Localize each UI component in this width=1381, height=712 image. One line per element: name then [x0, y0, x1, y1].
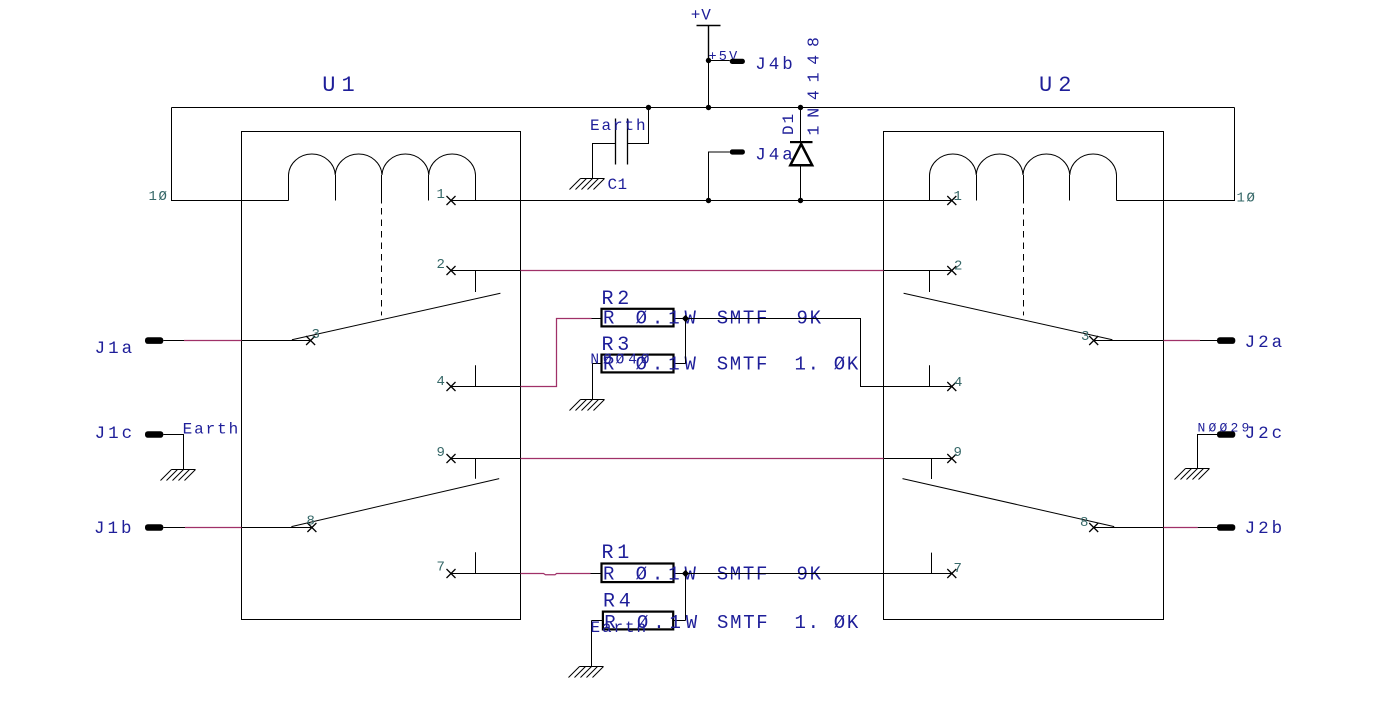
- svg-text:R1: R1: [602, 542, 634, 565]
- wire R3 left to ground: [592, 364, 594, 400]
- U1 coil: [289, 154, 476, 200]
- svg-text:7: 7: [954, 561, 964, 577]
- diode D1 1N4148: [798, 105, 803, 110]
- ground J1c: [161, 470, 196, 481]
- svg-text:8: 8: [306, 514, 316, 530]
- wire R3 right to junction: [685, 319, 687, 364]
- svg-text:J4b: J4b: [755, 55, 796, 75]
- svg-text:C1: C1: [608, 176, 628, 194]
- U2 body box: [884, 132, 1164, 620]
- wire J1c to ground: [163, 435, 183, 470]
- svg-text:NØØ29: NØØ29: [1198, 420, 1253, 435]
- node junction top wire at +V: [706, 105, 711, 110]
- capacitor C1: [646, 105, 651, 110]
- wire U2 pin3 to J2a: [1164, 340, 1200, 342]
- U2 pin 1: [947, 196, 956, 205]
- U2 pin 2: [884, 270, 952, 272]
- U2 pin 7: [884, 573, 952, 575]
- wire left outer loop to U1 pin 10: [172, 108, 289, 201]
- U2 switch stub pin9: [931, 459, 933, 480]
- connector J1b: [145, 524, 163, 531]
- wire J4a drop: [709, 152, 730, 201]
- wire J1a to U1 pin3: [163, 340, 184, 342]
- svg-text:9K: 9K: [797, 564, 823, 586]
- svg-text:J1c: J1c: [95, 424, 136, 444]
- U1 switch blade bottom: [291, 479, 499, 527]
- node R2/R3 junction diamond: [682, 315, 689, 322]
- svg-text:Earth: Earth: [183, 421, 241, 439]
- svg-text:2: 2: [436, 257, 446, 273]
- U1 pin 9: [451, 458, 521, 460]
- wire U1 pin7 to R1 magenta with jog: [521, 574, 591, 575]
- U2 pin 9: [884, 458, 952, 460]
- U1 pin 8: [242, 527, 312, 529]
- U2 switch blade bottom: [903, 479, 1115, 527]
- U2 dashed link: [1023, 208, 1025, 315]
- connector J2c: [1217, 431, 1235, 438]
- svg-text:SMTF: SMTF: [717, 354, 769, 376]
- connector J2a: [1217, 337, 1235, 344]
- wire J2c to ground: [1198, 435, 1218, 469]
- svg-text:9: 9: [436, 445, 446, 461]
- wire right outer loop to U2 pin 10: [1117, 108, 1235, 201]
- wire R4 right to junction: [685, 574, 687, 621]
- svg-text:9: 9: [954, 445, 964, 461]
- svg-text:J2b: J2b: [1245, 519, 1286, 539]
- svg-text:2: 2: [954, 259, 964, 275]
- U1 pin 1: [447, 196, 456, 205]
- wire J1b to U1 pin8: [163, 527, 185, 529]
- power +V: [697, 26, 721, 61]
- U2 switch stub pin2: [929, 271, 931, 293]
- U1 dashed link: [381, 208, 383, 315]
- connector J1c: [145, 431, 163, 438]
- U2 switch blade top: [904, 293, 1113, 340]
- U1 switch blade top: [292, 293, 501, 340]
- svg-text:3: 3: [1081, 329, 1091, 345]
- wire U2 pin8 to J2b: [1164, 527, 1198, 529]
- ground R3: [570, 400, 605, 411]
- U1 pin 4: [451, 386, 521, 388]
- svg-text:U1: U1: [322, 73, 360, 98]
- connector J1a: [145, 337, 163, 344]
- U2 pin 4: [884, 386, 952, 388]
- wire top horizontal bus: [172, 107, 1235, 109]
- wire U1 pin4 to R2 magenta: [521, 319, 592, 387]
- node R1/R4 junction diamond: [682, 570, 689, 577]
- svg-text:4: 4: [954, 375, 964, 391]
- connector J4b: [730, 59, 745, 64]
- U1 switch stub pin4: [475, 365, 477, 386]
- U1 switch stub pin7: [475, 552, 477, 573]
- U2 pin 3: [1094, 340, 1164, 342]
- connector J2b: [1217, 524, 1235, 531]
- connector J4a: [730, 149, 745, 154]
- wire R2 out to U2 pin4: [686, 319, 952, 387]
- svg-text:J1b: J1b: [94, 519, 135, 539]
- svg-text:3: 3: [312, 327, 322, 343]
- svg-text:1: 1: [436, 187, 446, 203]
- svg-text:NØØ4Ø: NØØ4Ø: [590, 352, 653, 368]
- svg-text:Earth: Earth: [591, 619, 649, 637]
- node +5V junction: [706, 58, 711, 63]
- svg-text:1N4148: 1N4148: [805, 29, 824, 135]
- U1 pin 7: [451, 573, 521, 575]
- svg-text:1: 1: [954, 189, 964, 205]
- U2 switch stub pin4: [929, 365, 931, 386]
- svg-text:1Ø: 1Ø: [1237, 190, 1257, 206]
- wire pin1 row U1 to U2: [451, 200, 952, 202]
- U2 coil: [930, 154, 1117, 200]
- U1 switch stub pin9: [475, 459, 477, 479]
- wire R4 left to ground: [591, 621, 593, 667]
- svg-text:8: 8: [1080, 515, 1090, 531]
- svg-text:SMTF: SMTF: [717, 564, 769, 586]
- ground J2c: [1175, 469, 1210, 480]
- svg-text:4: 4: [436, 374, 446, 390]
- svg-text:U2: U2: [1039, 73, 1077, 98]
- svg-text:1Ø: 1Ø: [148, 189, 168, 205]
- wire net pin9 row magenta: [521, 458, 884, 460]
- U1 pin 3: [242, 340, 311, 342]
- U1 switch stub pin2: [475, 271, 477, 293]
- svg-text:J4a: J4a: [755, 146, 796, 166]
- svg-text:+V: +V: [691, 7, 712, 25]
- svg-text:J1a: J1a: [95, 339, 136, 359]
- svg-text:J2a: J2a: [1245, 333, 1286, 353]
- U2 switch stub pin7: [931, 553, 933, 574]
- wire net pin2 row magenta: [521, 270, 884, 272]
- ground R4: [569, 667, 604, 678]
- svg-text:SMTF: SMTF: [717, 612, 769, 634]
- U1 body box: [242, 132, 521, 620]
- U2 pin 8: [1094, 527, 1164, 529]
- svg-text:D1: D1: [780, 112, 798, 135]
- svg-text:Earth: Earth: [590, 117, 648, 135]
- svg-text:R4: R4: [603, 590, 635, 613]
- wire R1 out to U2 pin7: [686, 573, 952, 575]
- svg-text:7: 7: [436, 560, 446, 576]
- svg-text:1. ØK: 1. ØK: [795, 354, 861, 376]
- U1 pin 2: [451, 270, 521, 272]
- svg-text:1. ØK: 1. ØK: [795, 612, 861, 634]
